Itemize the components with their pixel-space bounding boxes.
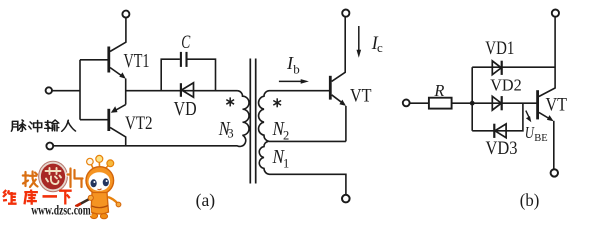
glyph 片 white casing <box>68 169 83 188</box>
svg-text:C: C <box>181 33 190 53</box>
glyph 一 <box>43 195 58 198</box>
face <box>89 172 111 191</box>
antenna stalks <box>91 161 110 168</box>
glyph 库 <box>24 190 38 205</box>
wire capacitor branch <box>161 59 180 90</box>
svg-text:VD1: VD1 <box>485 38 514 59</box>
svg-text:VT1: VT1 <box>124 50 150 72</box>
transformer winding N1 <box>259 141 346 194</box>
wire VD2 main <box>472 102 537 104</box>
transformer winding N3 <box>53 91 249 147</box>
label pulse input 脉冲输入 (hand-drawn glyphs) <box>11 120 75 132</box>
wire VD3 branch <box>472 103 523 131</box>
wire junction branch vertical <box>471 67 473 131</box>
diode VD <box>181 83 194 97</box>
svg-text:b: b <box>293 62 300 77</box>
transformer winding N2 <box>259 91 346 142</box>
label N2 asterisk <box>273 98 281 107</box>
svg-text:VD: VD <box>174 99 197 120</box>
glyph 输 <box>45 120 59 131</box>
glyph 冲 <box>29 120 42 131</box>
svg-text:VT: VT <box>546 95 568 116</box>
watermark 找芯片 <box>23 161 83 191</box>
svg-text:BE: BE <box>534 132 548 144</box>
svg-text:(b): (b) <box>520 190 540 210</box>
terminal VT1 collector <box>122 11 129 18</box>
wire to resistor <box>410 102 429 104</box>
svg-text:c: c <box>377 40 383 55</box>
node junction dot <box>470 101 475 106</box>
svg-text:VT2: VT2 <box>125 114 153 134</box>
input terminal (b) <box>403 100 410 107</box>
diode VD2 <box>492 96 501 110</box>
svg-text:VT: VT <box>350 85 372 106</box>
transistor VT (a) <box>330 17 346 106</box>
glyph 脉 <box>11 120 25 131</box>
wire emitter rail to transformer <box>126 90 238 92</box>
right arm <box>108 197 118 204</box>
glyph 片 <box>68 169 83 188</box>
antenna balls <box>87 158 94 165</box>
eyes <box>91 179 97 187</box>
wire input-top to base bus <box>52 90 80 92</box>
red ellipse lens <box>40 163 66 191</box>
transistor VT (b) <box>538 17 556 121</box>
feet <box>90 213 97 218</box>
input terminal (pulse input, bottom) <box>46 143 53 150</box>
capacitor C <box>181 52 187 67</box>
mouth <box>98 189 102 190</box>
head <box>86 167 114 195</box>
glyph 下 <box>59 191 72 205</box>
watermark mascot <box>76 155 121 218</box>
svg-text:VD2: VD2 <box>490 75 522 94</box>
wire base bus vertical <box>79 60 81 120</box>
svg-text:3: 3 <box>227 127 233 141</box>
svg-text:(a): (a) <box>196 190 216 210</box>
input terminal (pulse input, top) <box>46 87 52 93</box>
arm with rod <box>76 198 93 207</box>
label UBE with arrow <box>526 111 532 123</box>
svg-text:www.dzsc.com: www.dzsc.com <box>31 203 91 218</box>
transformer core <box>250 59 255 184</box>
transistor VT1 <box>109 18 126 79</box>
terminal bottom right of (a) <box>342 195 350 203</box>
label N3 asterisk <box>226 97 234 106</box>
svg-text:1: 1 <box>283 157 289 171</box>
wire VT1 emitter to VT2 emitter <box>125 79 127 105</box>
wire VD1 branch <box>472 66 555 68</box>
glyph 找 white casing <box>23 172 38 188</box>
terminal VT collector (b) <box>552 10 559 17</box>
glyph 维 <box>3 190 17 205</box>
svg-text:VD3: VD3 <box>486 138 518 159</box>
svg-text:2: 2 <box>283 128 289 142</box>
watermark 维库一下 <box>3 190 72 205</box>
wire VT emitter down (b) <box>553 121 555 169</box>
wire VT emitter down to junction <box>345 106 347 141</box>
diode VD3 <box>494 124 506 138</box>
wire to VT2 base <box>80 119 108 121</box>
diode VD1 <box>492 61 501 75</box>
resistor R <box>429 98 452 109</box>
terminal VT emitter (b) <box>551 169 558 176</box>
wire resistor to junction <box>452 102 473 104</box>
glyph 入 <box>62 120 76 131</box>
wire to VT1 base <box>80 59 108 61</box>
body <box>91 193 109 215</box>
svg-text:R: R <box>433 81 444 100</box>
terminal VT collector (a) <box>342 10 349 17</box>
glyph 芯 <box>46 168 62 184</box>
belt <box>92 206 109 208</box>
glyph 找 <box>23 172 38 188</box>
transistor VT2 <box>109 105 126 146</box>
